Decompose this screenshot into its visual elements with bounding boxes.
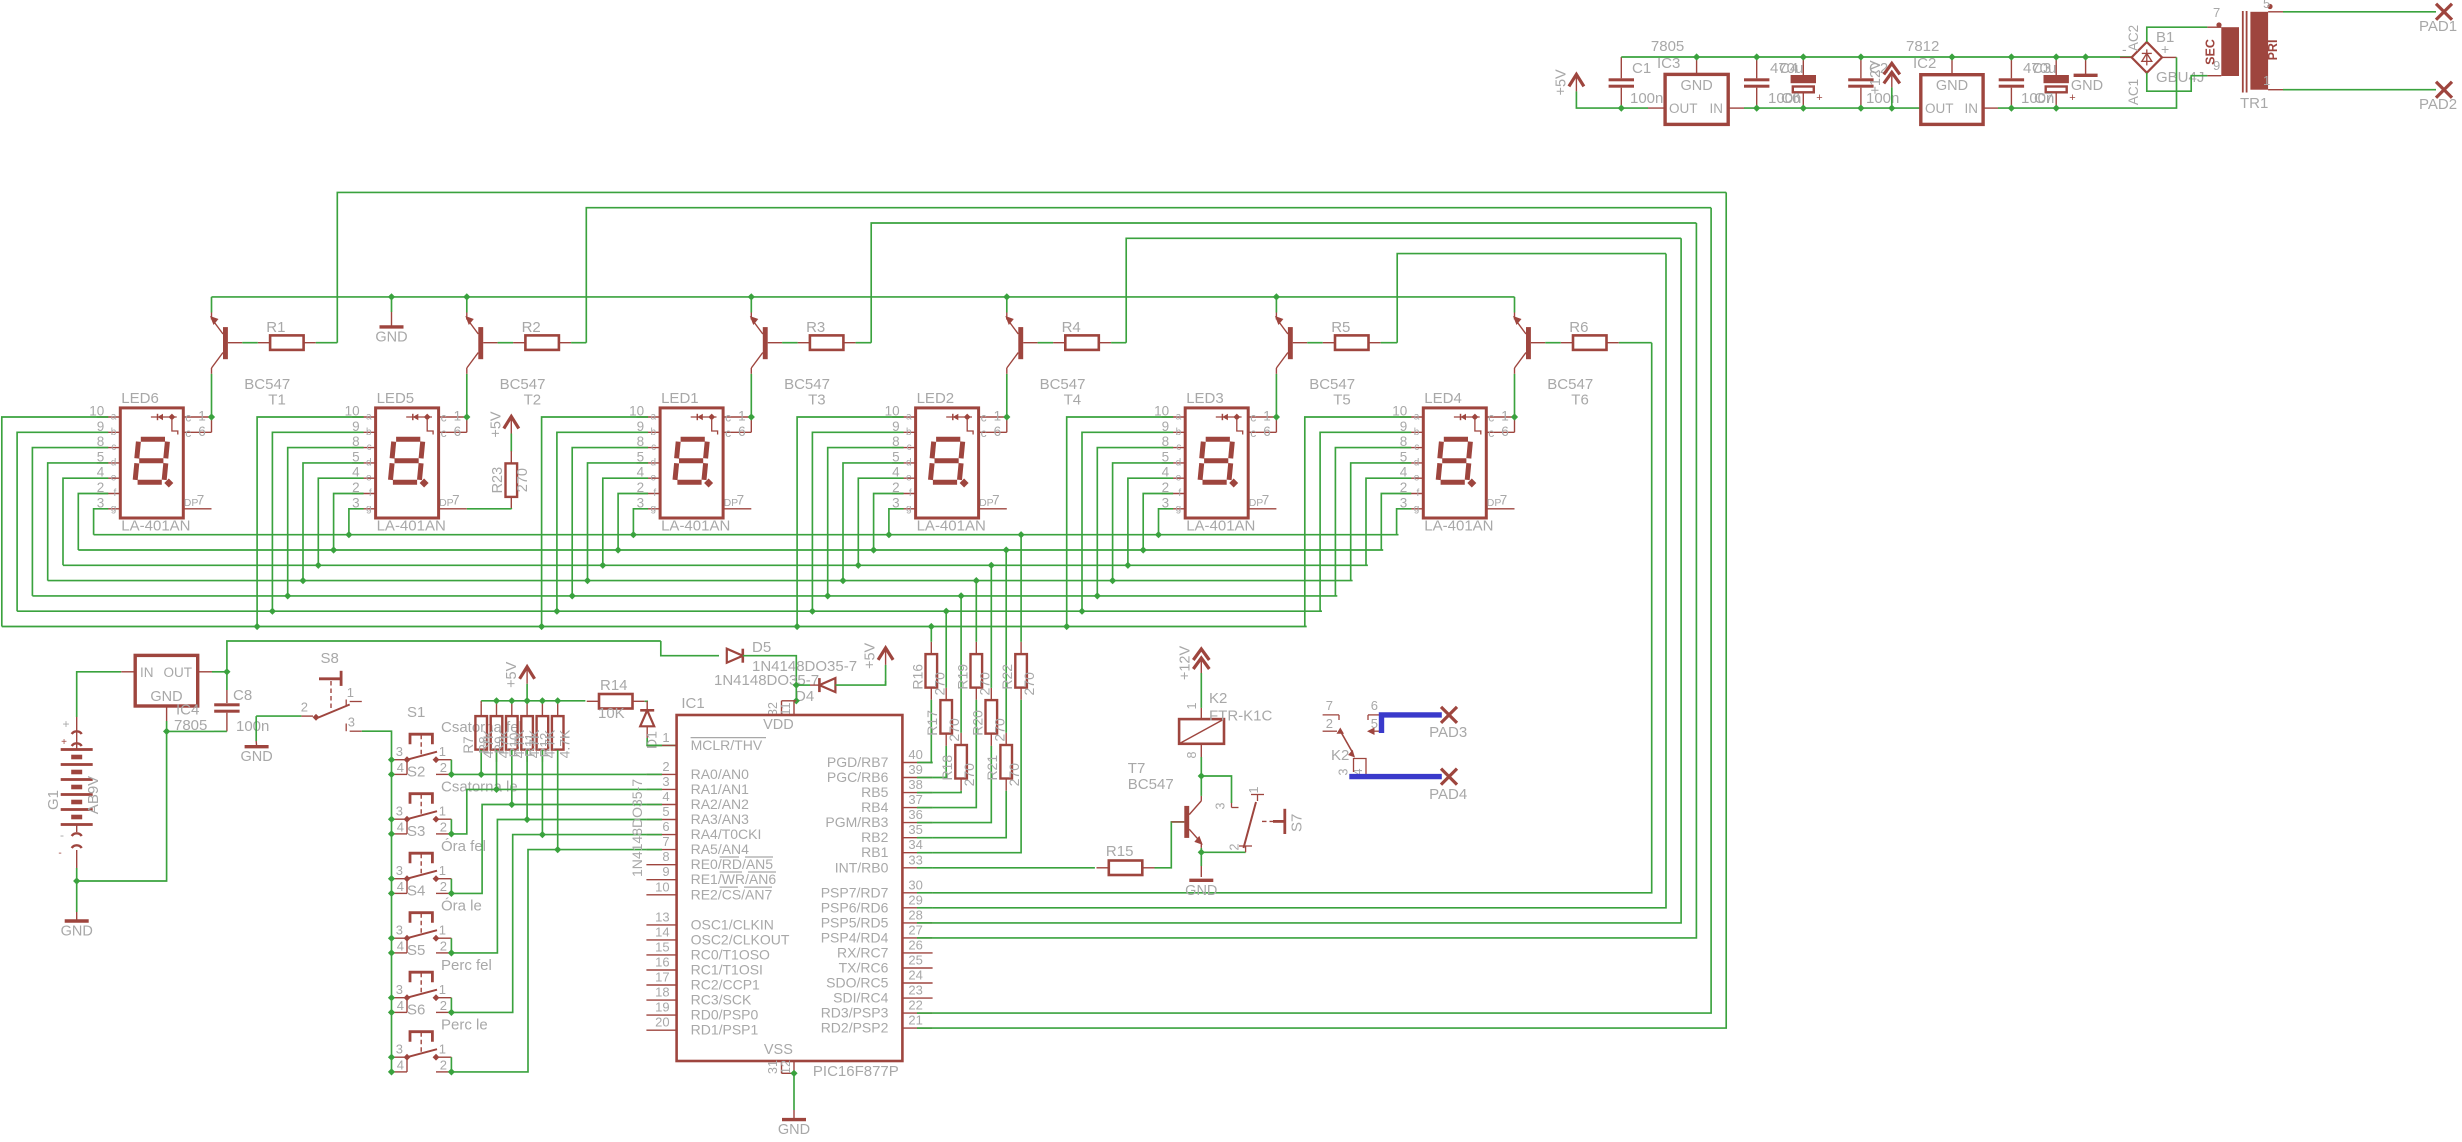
svg-text:1: 1	[662, 730, 669, 745]
svg-text:S8: S8	[321, 650, 339, 667]
svg-text:4.7K: 4.7K	[557, 729, 573, 758]
svg-text:3: 3	[1214, 802, 1228, 809]
svg-text:c: c	[185, 411, 191, 425]
svg-text:K2: K2	[1331, 747, 1349, 764]
svg-text:a: a	[1176, 412, 1182, 423]
svg-text:LED2: LED2	[917, 390, 955, 407]
svg-text:BC547: BC547	[784, 376, 830, 393]
svg-text:GND: GND	[1680, 78, 1712, 94]
svg-text:a: a	[366, 412, 372, 423]
svg-text:c: c	[1414, 442, 1419, 453]
svg-text:Perc fel: Perc fel	[441, 957, 492, 974]
svg-text:d: d	[1176, 457, 1182, 468]
svg-text:Óra le: Óra le	[441, 898, 482, 915]
svg-text:2: 2	[1326, 716, 1333, 731]
svg-text:1: 1	[439, 923, 446, 938]
svg-text:37: 37	[908, 792, 922, 807]
svg-text:6: 6	[198, 424, 206, 439]
svg-text:3: 3	[396, 804, 403, 819]
svg-text:1: 1	[1501, 409, 1509, 424]
svg-text:7805: 7805	[1651, 38, 1684, 55]
svg-text:R6: R6	[1569, 319, 1588, 336]
svg-text:d: d	[111, 457, 117, 468]
svg-text:RB1: RB1	[861, 844, 888, 860]
svg-text:7812: 7812	[1906, 38, 1939, 55]
svg-text:4.7K: 4.7K	[480, 729, 496, 758]
svg-text:40: 40	[908, 747, 922, 762]
svg-text:d: d	[1414, 457, 1420, 468]
svg-text:R2: R2	[522, 319, 541, 336]
svg-text:BC547: BC547	[1547, 376, 1593, 393]
svg-text:2: 2	[440, 760, 447, 775]
svg-text:a: a	[1414, 412, 1420, 423]
svg-text:R4: R4	[1062, 319, 1081, 336]
svg-text:RB2: RB2	[861, 829, 888, 845]
svg-text:IC2: IC2	[1913, 55, 1936, 72]
svg-text:4: 4	[397, 879, 404, 894]
svg-text:R14: R14	[600, 677, 628, 694]
svg-text:c: c	[1176, 442, 1181, 453]
svg-text:VSS: VSS	[764, 1042, 793, 1058]
svg-text:1: 1	[454, 409, 462, 424]
svg-text:270: 270	[991, 718, 1007, 742]
svg-text:BC547: BC547	[244, 376, 290, 393]
svg-text:26: 26	[908, 937, 922, 952]
svg-text:C3: C3	[2032, 60, 2051, 77]
svg-text:RC0/T1OSO: RC0/T1OSO	[691, 946, 770, 962]
svg-text:4.7K: 4.7K	[511, 729, 527, 758]
svg-text:1: 1	[439, 1042, 446, 1057]
svg-text:FTR-K1C: FTR-K1C	[1209, 708, 1273, 725]
svg-text:16: 16	[655, 955, 669, 970]
svg-text:6: 6	[1263, 424, 1271, 439]
svg-text:R1: R1	[266, 319, 285, 336]
svg-text:19: 19	[655, 1000, 669, 1015]
svg-text:2: 2	[440, 998, 447, 1013]
svg-text:GBU4J: GBU4J	[2156, 69, 2204, 86]
svg-text:7: 7	[1500, 493, 1508, 508]
svg-text:3: 3	[1337, 768, 1351, 775]
svg-text:RC3/SCK: RC3/SCK	[691, 992, 752, 1008]
svg-text:g: g	[366, 503, 372, 514]
svg-text:2: 2	[440, 938, 447, 953]
svg-text:S5: S5	[407, 942, 425, 959]
svg-text:SDO/RC5: SDO/RC5	[826, 975, 888, 991]
svg-text:18: 18	[655, 985, 669, 1000]
svg-text:8: 8	[662, 849, 669, 864]
svg-text:+12V: +12V	[1177, 646, 1193, 681]
svg-text:IC1: IC1	[681, 695, 704, 712]
svg-text:PAD1: PAD1	[2419, 18, 2457, 35]
svg-text:IC4: IC4	[176, 702, 199, 719]
svg-text:3: 3	[396, 863, 403, 878]
svg-text:1: 1	[1185, 702, 1199, 709]
svg-text:g: g	[1414, 503, 1420, 514]
svg-text:T5: T5	[1333, 392, 1351, 409]
svg-text:BC547: BC547	[1128, 776, 1174, 793]
svg-text:4: 4	[397, 998, 404, 1013]
svg-text:11: 11	[779, 702, 793, 715]
svg-text:8: 8	[1185, 751, 1199, 758]
svg-text:g: g	[906, 503, 912, 514]
svg-text:39: 39	[908, 762, 922, 777]
svg-text:6: 6	[662, 819, 669, 834]
svg-text:PSP5/RD5: PSP5/RD5	[821, 914, 889, 930]
svg-text:1: 1	[738, 409, 746, 424]
svg-text:T3: T3	[808, 392, 826, 409]
svg-text:14: 14	[655, 924, 669, 939]
svg-text:AC1: AC1	[2126, 79, 2141, 105]
svg-text:PAD4: PAD4	[1429, 786, 1467, 803]
svg-text:15: 15	[655, 939, 669, 954]
svg-text:29: 29	[908, 892, 922, 907]
svg-text:PSP4/RD4: PSP4/RD4	[821, 929, 889, 945]
svg-text:1: 1	[439, 863, 446, 878]
svg-text:1: 1	[1247, 786, 1261, 793]
svg-text:23: 23	[908, 983, 922, 998]
svg-text:c: c	[1250, 411, 1256, 425]
svg-text:2: 2	[440, 879, 447, 894]
svg-text:R22: R22	[999, 664, 1015, 690]
svg-text:10K: 10K	[598, 705, 625, 722]
svg-text:f: f	[369, 488, 372, 499]
svg-text:d: d	[651, 457, 657, 468]
svg-text:Óra fel: Óra fel	[441, 838, 486, 855]
svg-text:17: 17	[655, 970, 669, 985]
svg-text:1: 1	[2263, 73, 2270, 88]
svg-text:f: f	[909, 488, 912, 499]
svg-text:K2: K2	[1209, 690, 1227, 707]
svg-text:1N4148DO35-7: 1N4148DO35-7	[714, 672, 819, 689]
svg-text:RA3/AN3: RA3/AN3	[691, 811, 750, 827]
svg-text:30: 30	[908, 877, 922, 892]
svg-text:31: 31	[766, 1060, 780, 1074]
svg-text:3: 3	[396, 1042, 403, 1057]
svg-text:RE2/CS/AN7: RE2/CS/AN7	[691, 886, 773, 902]
svg-text:RD2/PSP2: RD2/PSP2	[821, 1020, 889, 1036]
svg-text:10: 10	[655, 879, 669, 894]
svg-text:BC547: BC547	[500, 376, 546, 393]
svg-text:+: +	[61, 737, 67, 748]
svg-text:RD0/PSP0: RD0/PSP0	[691, 1007, 759, 1023]
svg-text:e: e	[366, 473, 372, 484]
svg-text:MCLR/THV: MCLR/THV	[691, 737, 763, 753]
svg-text:c: c	[1488, 411, 1494, 425]
svg-text:C8: C8	[233, 687, 252, 704]
svg-text:7: 7	[662, 834, 669, 849]
svg-text:36: 36	[908, 807, 922, 822]
svg-text:7: 7	[197, 493, 205, 508]
svg-text:PSP7/RD7: PSP7/RD7	[821, 884, 889, 900]
svg-text:d: d	[906, 457, 912, 468]
svg-text:+5V: +5V	[863, 642, 879, 669]
svg-text:R17: R17	[924, 710, 940, 736]
svg-text:LA-401AN: LA-401AN	[1424, 518, 1493, 535]
svg-text:RD1/PSP1: RD1/PSP1	[691, 1022, 759, 1038]
svg-text:OSC2/CLKOUT: OSC2/CLKOUT	[691, 931, 790, 947]
svg-text:6: 6	[1371, 698, 1378, 713]
svg-text:c: c	[981, 411, 987, 425]
svg-text:d: d	[366, 457, 372, 468]
svg-text:S2: S2	[407, 764, 425, 781]
svg-text:3: 3	[396, 744, 403, 759]
svg-text:RC1/T1OSI: RC1/T1OSI	[691, 962, 763, 978]
svg-text:GND: GND	[240, 749, 272, 765]
svg-text:b: b	[1176, 427, 1182, 438]
svg-text:c: c	[367, 442, 372, 453]
svg-text:270: 270	[946, 718, 962, 742]
svg-text:R23: R23	[490, 467, 506, 494]
svg-text:2: 2	[440, 819, 447, 834]
svg-text:OSC1/CLKIN: OSC1/CLKIN	[691, 916, 774, 932]
svg-text:12: 12	[779, 1060, 793, 1074]
svg-text:1: 1	[198, 409, 206, 424]
svg-text:S1: S1	[407, 704, 425, 721]
svg-text:6: 6	[1501, 424, 1509, 439]
svg-text:-: -	[58, 848, 61, 859]
svg-text:b: b	[111, 427, 117, 438]
svg-text:LA-401AN: LA-401AN	[121, 518, 190, 535]
svg-text:RA5/AN4: RA5/AN4	[691, 841, 750, 857]
svg-text:IN: IN	[1965, 101, 1979, 116]
svg-text:+5V: +5V	[1553, 69, 1569, 96]
svg-text:38: 38	[908, 777, 922, 792]
svg-text:g: g	[111, 503, 117, 514]
svg-text:c: c	[1250, 426, 1256, 440]
svg-text:f: f	[1417, 488, 1420, 499]
svg-text:4.7K: 4.7K	[526, 729, 542, 758]
svg-text:3: 3	[396, 923, 403, 938]
svg-text:c: c	[441, 411, 447, 425]
svg-text:VDD: VDD	[763, 717, 794, 733]
svg-text:GND: GND	[61, 924, 93, 940]
svg-text:b: b	[366, 427, 372, 438]
svg-text:c: c	[111, 442, 116, 453]
svg-text:34: 34	[908, 837, 922, 852]
svg-text:PGD/RB7: PGD/RB7	[827, 754, 889, 770]
svg-text:6: 6	[994, 424, 1002, 439]
svg-text:4: 4	[397, 819, 404, 834]
svg-text:270: 270	[515, 468, 531, 492]
svg-text:7: 7	[992, 493, 1000, 508]
svg-text:5: 5	[2263, 0, 2270, 11]
svg-text:e: e	[906, 473, 912, 484]
svg-text:LA-401AN: LA-401AN	[917, 518, 986, 535]
svg-text:R20: R20	[969, 710, 985, 736]
svg-text:BC547: BC547	[1309, 376, 1355, 393]
svg-text:GND: GND	[375, 329, 407, 345]
svg-text:RA1/AN1: RA1/AN1	[691, 781, 750, 797]
svg-text:35: 35	[908, 822, 922, 837]
svg-text:1: 1	[347, 685, 354, 700]
svg-text:7: 7	[737, 493, 745, 508]
svg-text:b: b	[1414, 427, 1420, 438]
svg-text:RE0/RD/AN5: RE0/RD/AN5	[691, 856, 774, 872]
svg-text:4: 4	[662, 789, 669, 804]
svg-text:GND: GND	[2071, 78, 2103, 94]
svg-text:R3: R3	[806, 319, 825, 336]
svg-text:21: 21	[908, 1013, 922, 1028]
svg-text:7: 7	[1326, 698, 1333, 713]
svg-text:c: c	[907, 442, 912, 453]
svg-text:a: a	[111, 412, 117, 423]
svg-text:SDI/RC4: SDI/RC4	[833, 990, 888, 1006]
svg-text:RC2/CCP1: RC2/CCP1	[691, 977, 760, 993]
svg-text:4.7K: 4.7K	[541, 729, 557, 758]
svg-text:INT/RB0: INT/RB0	[835, 859, 889, 875]
svg-text:22: 22	[908, 998, 922, 1013]
svg-text:LED1: LED1	[661, 390, 699, 407]
svg-text:RA4/T0CKI: RA4/T0CKI	[691, 826, 762, 842]
svg-text:+: +	[62, 717, 69, 731]
svg-text:4: 4	[397, 1057, 404, 1072]
svg-text:24: 24	[908, 968, 922, 983]
svg-text:LED4: LED4	[1424, 390, 1462, 407]
svg-text:c: c	[725, 426, 731, 440]
svg-text:9: 9	[662, 864, 669, 879]
svg-text:B1: B1	[2156, 29, 2174, 46]
svg-text:1N4148DO35-7: 1N4148DO35-7	[629, 779, 645, 877]
svg-text:f: f	[1178, 488, 1181, 499]
svg-text:S4: S4	[407, 883, 425, 900]
svg-text:GND: GND	[1936, 78, 1968, 94]
svg-text:+: +	[1816, 92, 1822, 104]
svg-text:LED3: LED3	[1186, 390, 1224, 407]
svg-text:4: 4	[397, 938, 404, 953]
svg-text:LED6: LED6	[121, 390, 159, 407]
svg-text:C7: C7	[2034, 90, 2053, 107]
svg-text:33: 33	[908, 852, 922, 867]
svg-text:1: 1	[439, 804, 446, 819]
svg-text:S6: S6	[407, 1002, 425, 1019]
svg-text:D1: D1	[644, 731, 660, 749]
svg-text:OUT: OUT	[1669, 101, 1698, 116]
svg-text:7: 7	[1262, 493, 1270, 508]
svg-text:T6: T6	[1571, 392, 1589, 409]
svg-text:TR1: TR1	[2240, 95, 2268, 112]
svg-text:2: 2	[662, 759, 669, 774]
svg-text:IN: IN	[140, 665, 154, 680]
svg-text:c: c	[651, 442, 656, 453]
svg-text:g: g	[651, 503, 657, 514]
svg-text:BC547: BC547	[1040, 376, 1086, 393]
svg-text:Perc le: Perc le	[441, 1017, 488, 1034]
svg-text:T7: T7	[1128, 760, 1146, 777]
svg-text:D5: D5	[752, 639, 771, 656]
svg-text:g: g	[1176, 503, 1182, 514]
svg-text:e: e	[651, 473, 657, 484]
svg-text:PRI: PRI	[2266, 40, 2280, 61]
svg-text:e: e	[1414, 473, 1420, 484]
svg-text:7: 7	[2213, 5, 2220, 20]
svg-text:TX/RC6: TX/RC6	[839, 960, 889, 976]
svg-text:R15: R15	[1106, 843, 1134, 860]
svg-text:RB5: RB5	[861, 784, 888, 800]
svg-text:f: f	[653, 488, 656, 499]
svg-text:+5V: +5V	[504, 661, 520, 688]
svg-text:LA-401AN: LA-401AN	[377, 518, 446, 535]
svg-text:+5V: +5V	[488, 411, 504, 438]
svg-text:GND: GND	[778, 1122, 810, 1138]
svg-text:3: 3	[348, 715, 355, 730]
svg-text:f: f	[114, 488, 117, 499]
svg-text:S3: S3	[407, 823, 425, 840]
svg-text:LED5: LED5	[377, 390, 415, 407]
svg-text:6: 6	[454, 424, 462, 439]
svg-text:a: a	[651, 412, 657, 423]
svg-text:4: 4	[397, 760, 404, 775]
svg-text:+12V: +12V	[1868, 60, 1884, 95]
svg-text:T4: T4	[1064, 392, 1082, 409]
svg-text:SEC: SEC	[2204, 39, 2218, 65]
svg-text:IN: IN	[1710, 101, 1724, 116]
svg-text:OUT: OUT	[164, 665, 193, 680]
svg-text:PAD2: PAD2	[2419, 96, 2457, 113]
svg-text:270: 270	[1021, 672, 1037, 696]
svg-text:3: 3	[396, 982, 403, 997]
svg-text:2: 2	[440, 1057, 447, 1072]
svg-text:G1: G1	[45, 790, 62, 810]
svg-text:c: c	[981, 426, 987, 440]
svg-text:PGC/RB6: PGC/RB6	[827, 769, 889, 785]
svg-text:270: 270	[976, 672, 992, 696]
svg-text:27: 27	[908, 922, 922, 937]
svg-text:1: 1	[994, 409, 1002, 424]
svg-text:AB9V: AB9V	[85, 776, 102, 814]
svg-text:LA-401AN: LA-401AN	[661, 518, 730, 535]
svg-text:3: 3	[662, 774, 669, 789]
svg-text:PAD3: PAD3	[1429, 724, 1467, 741]
svg-text:270: 270	[961, 763, 977, 787]
svg-text:S7: S7	[1289, 814, 1306, 832]
svg-text:AC2: AC2	[2126, 25, 2141, 51]
svg-text:R7: R7	[461, 736, 476, 753]
svg-text:e: e	[111, 473, 117, 484]
svg-text:13: 13	[655, 909, 669, 924]
svg-text:25: 25	[908, 953, 922, 968]
svg-text:c: c	[1488, 426, 1494, 440]
svg-text:OUT: OUT	[1925, 101, 1954, 116]
svg-text:b: b	[906, 427, 912, 438]
svg-text:28: 28	[908, 907, 922, 922]
svg-text:R16: R16	[909, 664, 925, 690]
svg-text:PGM/RB3: PGM/RB3	[825, 814, 888, 830]
svg-text:4.7K: 4.7K	[496, 729, 512, 758]
svg-text:R21: R21	[984, 755, 1000, 781]
svg-text:R18: R18	[939, 755, 955, 781]
svg-text:C4: C4	[1779, 60, 1798, 77]
svg-text:270: 270	[931, 672, 947, 696]
svg-text:Csatorna le: Csatorna le	[441, 779, 518, 796]
svg-text:PIC16F877P: PIC16F877P	[813, 1063, 899, 1080]
svg-text:c: c	[725, 411, 731, 425]
svg-text:PSP6/RD6: PSP6/RD6	[821, 899, 889, 915]
svg-text:C6: C6	[1781, 90, 1800, 107]
svg-text:T1: T1	[268, 392, 286, 409]
svg-text:100n: 100n	[1630, 90, 1663, 107]
svg-text:RA2/AN2: RA2/AN2	[691, 796, 750, 812]
svg-text:RB4: RB4	[861, 799, 888, 815]
svg-text:b: b	[651, 427, 657, 438]
svg-text:20: 20	[655, 1015, 669, 1030]
svg-text:R19: R19	[954, 664, 970, 690]
svg-text:270: 270	[1006, 763, 1022, 787]
svg-text:1: 1	[1263, 409, 1271, 424]
svg-text:RD3/PSP3: RD3/PSP3	[821, 1005, 889, 1021]
svg-text:2: 2	[301, 700, 308, 715]
svg-text:100n: 100n	[236, 718, 269, 735]
svg-text:2: 2	[1228, 843, 1242, 850]
